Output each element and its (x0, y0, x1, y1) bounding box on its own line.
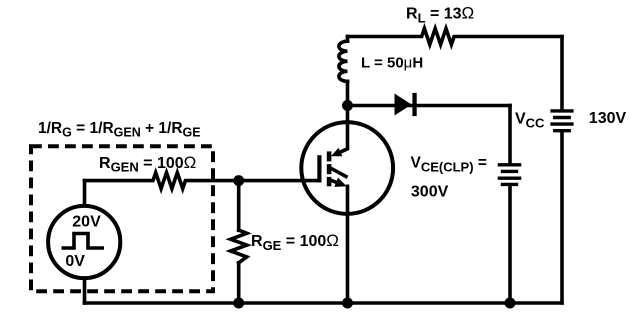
svg-text:130V: 130V (589, 110, 627, 127)
svg-text:L = 50μH: L = 50μH (361, 55, 423, 72)
svg-text:300V: 300V (411, 184, 449, 201)
svg-text:RL = 13Ω: RL = 13Ω (406, 4, 474, 26)
svg-text:20V: 20V (72, 214, 101, 231)
svg-text:0V: 0V (65, 253, 85, 270)
